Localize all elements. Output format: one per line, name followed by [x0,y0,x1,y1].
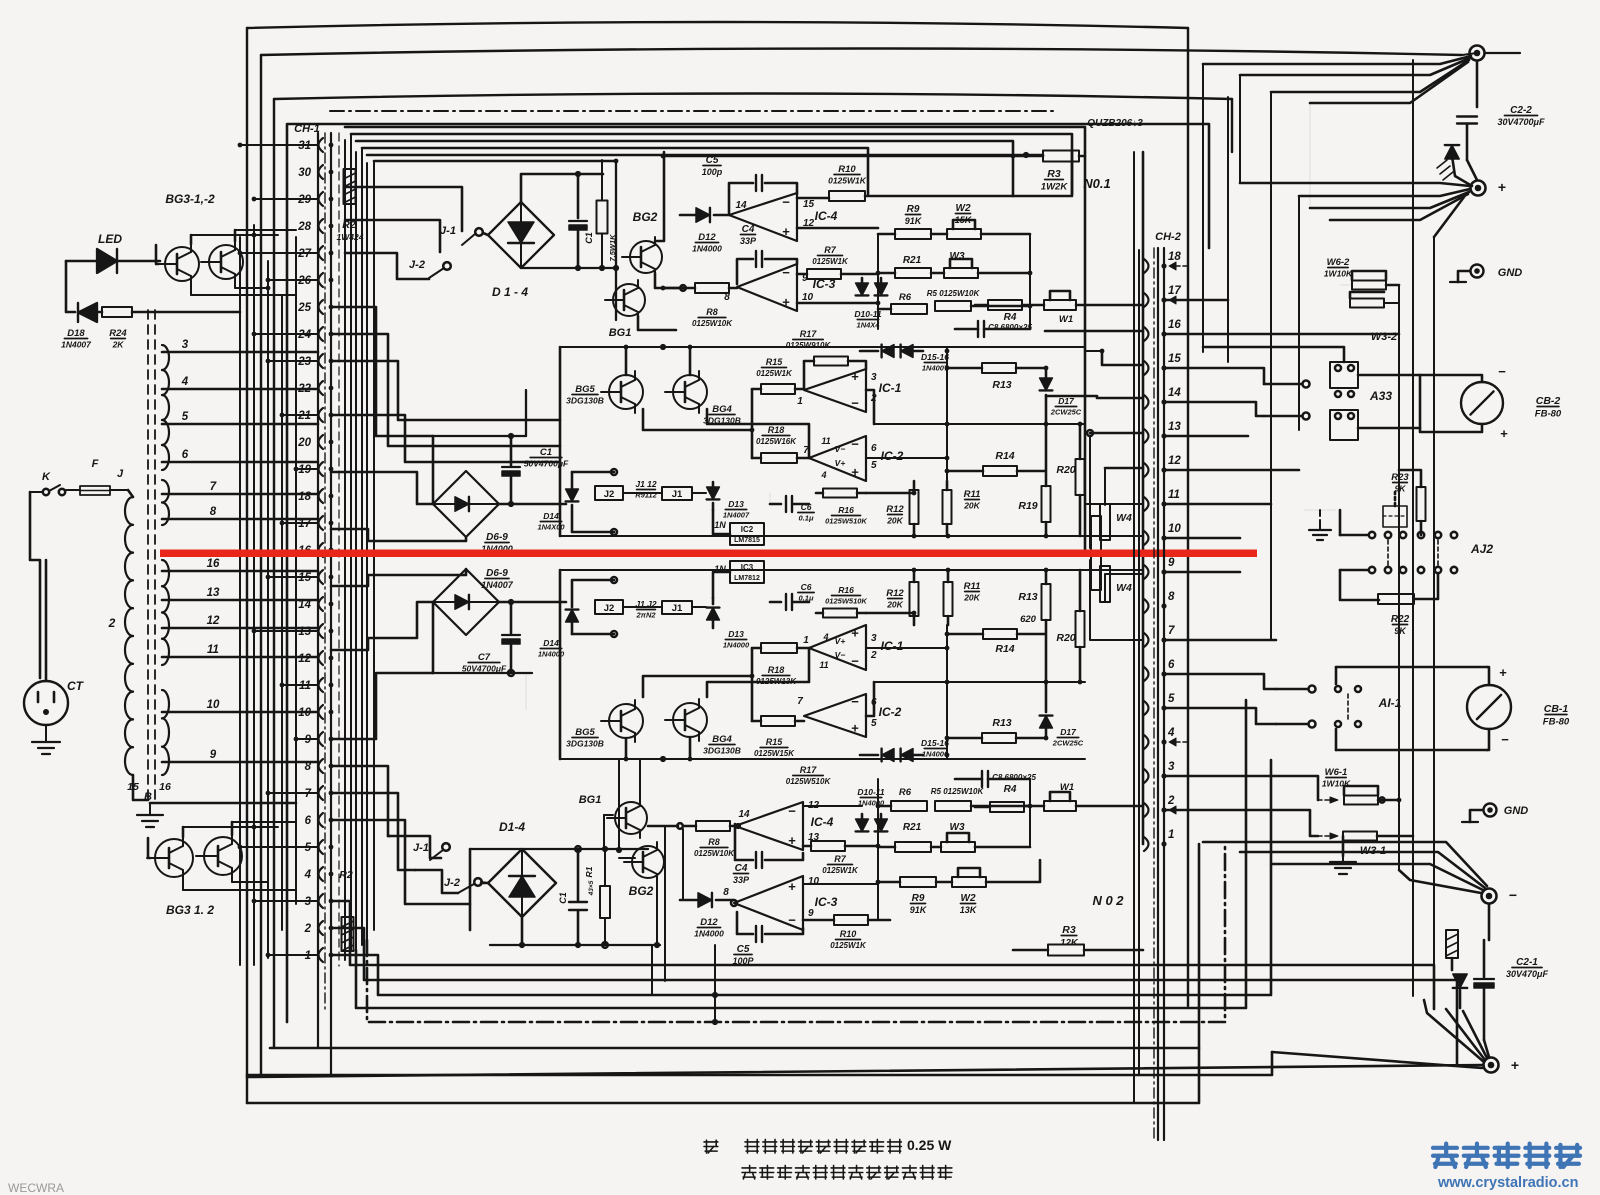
bridge D1-4b [481,820,556,917]
svg-text:20K: 20K [886,600,903,610]
svg-text:0.1μ: 0.1μ [799,514,814,523]
svg-text:CB-1: CB-1 [1544,703,1569,715]
svg-text:C2-2: C2-2 [1510,105,1532,116]
svg-text:3: 3 [182,339,189,351]
wire mid bottom rail [433,670,532,710]
svg-text:−: − [1509,887,1517,903]
svg-text:2: 2 [108,616,116,630]
note text line 2 [742,1165,952,1179]
capacitor C7 [462,599,520,674]
op-amp IC-3 [724,264,835,311]
svg-text:12: 12 [298,653,311,665]
svg-text:7: 7 [1168,625,1175,637]
transistor BG1 [605,280,645,339]
resistor R10b [803,915,890,950]
svg-text:0125W10K: 0125W10K [692,319,733,328]
label R17a [786,329,832,350]
binding post minus top [1470,46,1521,61]
resistor R21 [878,255,931,278]
svg-text:R5 0125W10K: R5 0125W10K [927,289,981,298]
svg-text:D14: D14 [543,638,559,648]
svg-text:BG1: BG1 [609,327,632,339]
svg-text:W1: W1 [1060,782,1074,793]
label J [117,468,124,480]
svg-text:0125W510K: 0125W510K [825,517,867,526]
svg-text:43×5: 43×5 [588,880,595,896]
svg-text:7: 7 [797,696,803,707]
svg-text:100P: 100P [732,956,754,966]
svg-text:20K: 20K [963,501,980,511]
switch J-1 [345,187,483,245]
svg-text:50V4700μF: 50V4700μF [524,459,569,469]
svg-text:WECWRA: WECWRA [8,1181,64,1195]
transistor BG4b [665,699,741,756]
svg-text:C1: C1 [584,232,594,244]
wire inner top buses [345,127,1085,194]
diode D15-16b [860,738,949,761]
svg-text:R21: R21 [903,255,922,266]
switch A33 [1203,347,1420,440]
svg-text:V−: V− [835,444,846,454]
svg-text:AJ2: AJ2 [1470,542,1493,556]
svg-text:J2: J2 [604,603,615,614]
op-amp IC-1b [803,625,903,670]
wire CH-2 to A33 [1164,300,1399,836]
svg-text:R22: R22 [1391,614,1410,625]
svg-text:CH-1: CH-1 [294,123,320,135]
svg-text:+: + [782,294,790,309]
svg-text:5: 5 [182,411,189,423]
diode D18 [61,303,97,350]
switch K [30,471,65,495]
binding post plus bottom [1484,1057,1520,1073]
svg-text:R6: R6 [899,292,912,303]
op-amp IC-1a [797,369,901,412]
potentiometer W3-1 [1318,832,1413,858]
wire dash-dot bus [330,110,1053,112]
svg-text:15: 15 [1168,353,1181,365]
svg-text:R16: R16 [838,505,854,515]
junction [652,945,718,1025]
svg-text:R17: R17 [800,329,818,339]
svg-text:3: 3 [1168,761,1175,773]
wire bottom rows bus [876,779,1033,920]
svg-text:10: 10 [1168,523,1181,535]
capacitor C4b [733,824,803,885]
svg-text:R8: R8 [706,307,718,317]
svg-text:16: 16 [1168,319,1181,331]
svg-text:0.25 W: 0.25 W [907,1137,952,1153]
svg-text:0125W510K: 0125W510K [786,777,832,786]
svg-text:J1: J1 [672,603,683,614]
svg-text:+: + [1499,665,1507,680]
svg-text:R11: R11 [964,581,981,592]
svg-text:C7: C7 [478,652,491,663]
svg-text:8: 8 [723,887,729,898]
label 16 [159,781,171,793]
svg-text:1: 1 [803,635,809,646]
diode D17a [1040,366,1082,427]
svg-text:W4: W4 [1116,512,1132,524]
switch box J2b [572,577,623,637]
svg-text:CH-2: CH-2 [1155,231,1181,243]
svg-text:www.crystalradio.cn: www.crystalradio.cn [1437,1175,1578,1191]
wire frame bottom 6 [270,844,1199,1048]
svg-text:C2-1: C2-1 [1516,957,1538,968]
svg-text:2: 2 [1167,795,1175,807]
watermark url [1437,1175,1578,1191]
svg-text:LM7812: LM7812 [734,575,760,582]
resistor R21b [878,822,931,852]
wire post fan top [1203,53,1477,107]
svg-text:0125W510K: 0125W510K [825,597,867,606]
svg-text:W6-2: W6-2 [1327,257,1350,268]
svg-text:11: 11 [1168,489,1180,501]
svg-text:8: 8 [210,506,217,518]
resistor R16a [816,489,867,526]
svg-text:R5 0125W10K: R5 0125W10K [931,787,985,796]
resistor R20a [1056,422,1084,536]
svg-text:4: 4 [304,869,312,881]
wire frame bottom 7 [247,1052,1272,1075]
transistor BG4a [665,371,741,426]
svg-text:D15-16: D15-16 [921,352,949,362]
ground CT [32,725,60,754]
svg-text:D6-9: D6-9 [486,532,508,543]
svg-text:C1: C1 [540,447,552,458]
svg-text:0125W16K: 0125W16K [756,437,797,446]
wire CH-2 arrows [1169,262,1188,814]
svg-text:IC-1: IC-1 [879,381,902,395]
connector CH-2 pins [1144,251,1181,851]
svg-text:BG4: BG4 [712,734,732,745]
svg-text:R13: R13 [992,379,1011,391]
svg-text:12K: 12K [1060,938,1079,949]
resistor R11b [944,570,981,625]
wire top rows bus [876,234,1033,329]
speaker CB-2 [1420,364,1562,441]
svg-text:D12: D12 [698,232,716,243]
svg-text:0125W1K: 0125W1K [828,176,867,186]
svg-text:R4: R4 [1004,312,1017,323]
switch J-2b [415,870,488,893]
label QUZB [1087,118,1143,129]
svg-text:R14: R14 [995,450,1014,462]
wire frame bottom 1 [331,901,1434,1009]
svg-text:10: 10 [808,876,820,887]
potentiometer W3 [931,251,1030,278]
label J1 12 [635,479,657,500]
capacitor C8 [955,321,1032,337]
connector CH-1 pins [297,138,333,962]
wire IC3 out [797,302,878,305]
wire BG bias net [616,759,683,981]
svg-text:3: 3 [871,372,877,383]
svg-text:J1: J1 [672,489,683,500]
svg-text:R9112: R9112 [635,491,657,500]
ground GND bottom [1462,804,1528,823]
svg-text:15K: 15K [955,215,973,225]
svg-text:15: 15 [803,199,815,210]
wire right verticals [1203,60,1434,1009]
svg-text:R9: R9 [912,893,925,904]
resistor R24 [97,307,240,350]
resistor R3 [1013,151,1085,193]
capacitor C2-2 [1457,105,1545,160]
label CH-2 [1155,231,1181,243]
svg-text:+: + [1498,179,1506,195]
svg-text:−: − [851,654,859,669]
resistor R5b [931,787,1030,811]
label CH-1 [294,123,320,135]
svg-text:11: 11 [821,436,830,446]
svg-text:1N4007: 1N4007 [723,511,750,520]
watermark brand [1433,1144,1580,1167]
svg-text:R12: R12 [886,588,904,599]
svg-text:30V4700μF: 30V4700μF [1498,117,1545,127]
svg-text:J: J [117,468,124,480]
svg-text:R10: R10 [838,164,856,175]
svg-text:13K: 13K [960,905,978,915]
svg-text:C8 6800×25: C8 6800×25 [988,323,1032,332]
svg-text:QUZB206↓3: QUZB206↓3 [1087,118,1143,129]
svg-text:12: 12 [207,615,220,627]
svg-text:V+: V+ [835,636,846,646]
diode D14b [538,610,579,659]
svg-text:F: F [92,458,99,470]
diode D10-11b [856,787,888,831]
resistor R1a [597,160,618,268]
resistor R19a [1018,424,1050,536]
svg-text:R4: R4 [1004,784,1017,795]
resistor R16b [816,585,867,618]
svg-text:4: 4 [822,632,828,642]
svg-text:4: 4 [181,376,189,388]
svg-text:17: 17 [1168,285,1181,297]
wire right bus of CH-1 [339,133,374,966]
svg-text:CB-2: CB-2 [1536,395,1561,407]
resistor R15a [752,357,804,394]
svg-text:0125W1K: 0125W1K [812,257,849,266]
resistor R7 [797,245,878,279]
svg-text:W6-1: W6-1 [1325,767,1348,778]
svg-text:16: 16 [207,558,220,570]
svg-text:D1-4: D1-4 [499,820,525,834]
bridge D6-9 a [331,436,566,554]
label BG3-1,-2 [165,192,215,206]
resistor extra a [804,357,866,390]
wire bottom bridge rails [470,849,660,948]
svg-text:13: 13 [207,587,220,599]
resistor R25b [1446,930,1458,970]
svg-text:IC2: IC2 [741,525,754,534]
regulator IC3 LM7812 [714,561,764,583]
switch AI-1 [1276,667,1487,750]
svg-text:+: + [851,465,859,480]
svg-text:BG5: BG5 [575,384,595,395]
svg-text:2πN2: 2πN2 [635,611,656,620]
wire bus near CH-2 [1134,152,1139,1103]
wire mid top rail [433,390,526,439]
svg-text:11: 11 [207,644,219,656]
capacitor C1a [569,174,594,268]
svg-text:1N4007: 1N4007 [61,340,92,350]
svg-text:−: − [851,437,859,452]
resistor R20b [1056,570,1084,684]
svg-text:BG2: BG2 [633,210,658,224]
svg-text:R21: R21 [903,822,922,833]
svg-text:N0.1: N0.1 [1083,176,1110,191]
svg-text:C6: C6 [801,582,812,592]
op-amp IC-2a [803,436,903,481]
svg-text:−: − [851,694,859,709]
svg-text:9: 9 [210,749,217,761]
diode D14a [537,472,578,532]
svg-text:D18: D18 [67,328,85,339]
wire LED loop [66,261,75,312]
label LED [98,232,122,246]
wire AJ2 link [1340,510,1379,600]
svg-text:1N4000: 1N4000 [692,244,722,254]
svg-text:FB-80: FB-80 [1543,717,1570,728]
diode LED [66,249,160,273]
svg-text:1W424: 1W424 [337,232,364,242]
svg-text:1: 1 [1168,829,1174,841]
transistor BG2b [619,842,664,948]
label N0.1 [1083,176,1110,191]
svg-text:R11: R11 [964,489,981,500]
potentiometer W4b [1091,554,1132,602]
svg-text:D17: D17 [1058,396,1075,406]
resistor R8 [661,283,737,328]
svg-text:GND: GND [1498,267,1523,279]
switch J-1b [388,836,450,860]
transistor BG3-1 [157,243,199,285]
resistor R23 [1391,470,1425,535]
svg-text:R13: R13 [992,717,1011,729]
wire mid bottom net [560,568,1085,763]
svg-text:10: 10 [207,699,220,711]
svg-text:3DG130B: 3DG130B [566,396,604,406]
svg-text:1N4000: 1N4000 [723,641,750,650]
svg-text:R15: R15 [766,737,784,747]
svg-text:−: − [1501,732,1509,747]
transformer core [148,310,155,803]
svg-text:91K: 91K [905,216,923,226]
svg-text:9K: 9K [1395,484,1407,494]
svg-text:W3: W3 [950,822,965,833]
svg-text:3DG130B: 3DG130B [703,746,741,756]
svg-text:J-1: J-1 [440,225,456,237]
svg-text:K: K [42,471,51,483]
svg-text:5: 5 [1168,693,1175,705]
resistor R4 [975,300,1022,323]
svg-text:16: 16 [159,781,171,793]
svg-text:33P: 33P [733,875,750,885]
svg-text:R10: R10 [840,929,857,939]
svg-text:6: 6 [871,443,877,454]
wire CH-2 stubs [1085,504,1143,570]
svg-text:9: 9 [808,908,814,919]
label B [144,791,152,803]
svg-text:1N4000: 1N4000 [694,929,724,939]
svg-text:R15: R15 [766,357,784,367]
svg-text:V−: V− [835,650,846,660]
svg-text:6: 6 [1168,659,1175,671]
resistor R1b [584,846,610,948]
svg-text:C4: C4 [735,863,748,874]
potentiometer W2b [936,860,1040,915]
svg-text:R3: R3 [1062,924,1076,936]
diode D15-16a [860,345,949,373]
capacitor C1 [502,436,569,507]
wire mid top net [560,344,1085,538]
svg-text:GND: GND [1504,805,1529,817]
bridge D6-9 b [331,568,566,673]
svg-text:−: − [782,265,790,280]
capacitor C2-1 [1474,940,1548,1040]
resistor R4b [975,784,1024,812]
svg-text:20K: 20K [963,593,980,603]
svg-text:D13: D13 [728,499,744,509]
wire frame 4 [287,124,1209,1022]
svg-text:3DG130B: 3DG130B [566,739,604,749]
svg-text:+: + [788,833,796,848]
svg-text:0125W1K: 0125W1K [830,941,867,950]
transistor BG5a [566,371,643,413]
svg-text:D13: D13 [728,629,744,639]
binding post minus bottom [1482,887,1518,904]
svg-text:D15-16: D15-16 [921,738,949,748]
wire mains [30,492,40,678]
switch box J1b [623,572,730,614]
svg-text:28: 28 [297,221,311,233]
connector CH-2 rails [1154,248,1164,1140]
svg-text:1N: 1N [714,520,726,530]
transformer secondary [162,345,169,775]
svg-text:IC-2: IC-2 [881,449,904,463]
svg-text:0.1μ: 0.1μ [799,594,814,603]
svg-text:W4: W4 [1116,582,1132,594]
svg-text:11: 11 [819,660,828,670]
resistor R5 [927,289,1030,311]
svg-text:3: 3 [871,633,877,644]
capacitor C1b [558,846,587,948]
wire CH-2 left taps [1045,331,1143,640]
svg-text:20K: 20K [886,516,903,526]
svg-text:LED: LED [98,232,122,246]
resistor R18b [752,643,809,686]
svg-text:R8: R8 [708,837,720,847]
svg-text:0125W10K: 0125W10K [694,849,735,858]
resistor R14a [947,450,1045,476]
binding post plus top [1471,179,1507,196]
marker red line [160,550,1257,558]
resistor R14b [947,629,1045,655]
svg-text:+: + [1500,426,1508,441]
svg-text:2: 2 [870,650,877,661]
resistor R11a [943,481,981,536]
svg-text:R7: R7 [824,245,836,255]
svg-text:J2: J2 [604,489,615,500]
svg-text:FB-80: FB-80 [1535,409,1562,420]
resistor R12b [886,570,918,625]
wire frame bottom 8 [247,1048,1199,1103]
wire R3 bus [661,152,1143,844]
speaker CB-1 [1467,665,1570,750]
resistor R22 [1378,574,1438,636]
svg-text:R7: R7 [834,854,846,864]
